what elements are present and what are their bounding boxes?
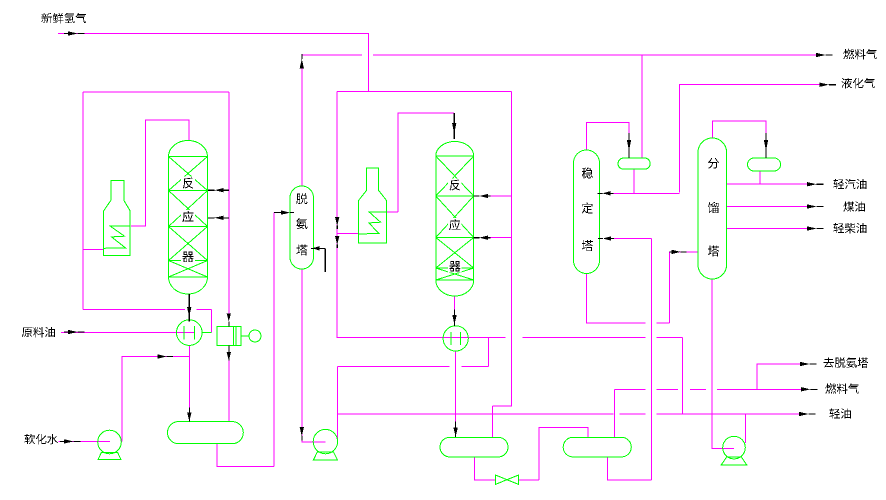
- label 软化水 softened water: [24, 434, 57, 445]
- pipe drum D2 gas riser: [613, 389, 615, 437]
- drum D0 recycle water drum: [168, 422, 244, 444]
- pipe ammonia column bottoms to pump P2: [302, 269, 326, 442]
- arrow raw oil feed: [64, 330, 85, 334]
- pipe furnace F2 outlet riser: [387, 113, 455, 212]
- arrow stabilizer feed: [598, 236, 614, 240]
- arrow H2 downcomer upper: [335, 217, 339, 229]
- label 分馏塔: [708, 158, 719, 257]
- label 脱氨塔: [296, 193, 307, 256]
- label 轻汽油 light gasoline: [833, 179, 866, 190]
- pipe pump P3 discharge: [744, 414, 746, 443]
- arrow into stab reflux drum D3: [627, 133, 631, 158]
- arrow quench R1 upper: [208, 188, 229, 192]
- pipe mixer M2 down to drum D1: [455, 351, 457, 422]
- arrow to de-ammonia tower: [800, 362, 817, 366]
- arrow exchanger bottom outlet: [227, 346, 231, 361]
- pipe exchanger bottom to drum D0: [228, 361, 230, 422]
- reactor R2 label 反应器: [448, 179, 462, 273]
- label 稳定塔: [582, 167, 593, 251]
- pipe light gasoline line: [727, 183, 807, 185]
- arrow mixer M1 outlet into drum D0: [187, 408, 191, 422]
- pipe furnace F1 inlet: [83, 248, 104, 250]
- de-ammonia column T1: [290, 186, 314, 269]
- arrow water join line: [158, 354, 174, 358]
- pipe quench stub upper R2: [491, 195, 512, 197]
- pipe product header to light oil: [338, 413, 799, 415]
- valve V1 letdown valve: [496, 475, 519, 484]
- pipe fresh hydrogen feed line: [58, 34, 369, 92]
- label 液化气 LPG: [841, 78, 874, 89]
- pipe pump P2 discharge cross line: [338, 338, 489, 367]
- label 煤油 kerosene: [843, 201, 864, 211]
- pipe recycle loop top: [83, 91, 229, 93]
- pipe valve to drum D2: [518, 428, 588, 480]
- label 燃料气 fuel gas bottom: [825, 383, 858, 394]
- label 新鲜氢气 fresh hydrogen: [41, 13, 86, 24]
- fractionator reflux drum D4: [748, 158, 781, 171]
- pump P2: [313, 429, 337, 460]
- mixer M1: [177, 320, 212, 346]
- pipe frac drum liquid down: [759, 171, 761, 184]
- pipe stab drum liquid: [613, 169, 680, 193]
- label 轻油 light oil: [829, 408, 850, 418]
- stabilizer column T2: [574, 150, 600, 274]
- arrow fuel gas bottom: [801, 387, 818, 391]
- arrow mixer M2 outlet into drum D1: [453, 422, 457, 437]
- arrow reactor R1 bottom outlet: [187, 294, 191, 322]
- pipe furnace F1 outlet to reactor R1: [131, 120, 189, 226]
- arrow light gasoline: [807, 182, 824, 186]
- label 燃料气 fuel gas top: [843, 49, 876, 60]
- pipe drum D2 bottoms to stabilizer feed riser: [608, 239, 652, 480]
- arrow quench R2 lower: [474, 236, 491, 240]
- pipe branch to de-ammonia tower: [757, 364, 800, 389]
- reactor R1: [169, 141, 208, 295]
- label 原料油 raw oil: [22, 327, 55, 337]
- pipe H2 downcomer to mixer M2: [337, 92, 468, 338]
- pipe kerosene line: [727, 206, 807, 208]
- arrow light oil: [799, 412, 816, 416]
- pipe recycle loop bottom: [83, 308, 212, 310]
- arrow quench R1 lower: [208, 216, 229, 220]
- pipe stab drum gas to fuel header: [641, 55, 643, 158]
- heat exchanger E1: [217, 327, 261, 346]
- furnace F2: [359, 168, 387, 243]
- pipe reactor R2 bottom outlet: [454, 296, 456, 310]
- arrow ammonia bottoms into pump P2: [300, 427, 304, 441]
- label 去脱氨塔 to de-ammonia tower: [824, 357, 869, 368]
- pipe recycle loop left: [82, 92, 84, 309]
- pipe fuel-gas bottom line: [614, 388, 801, 390]
- stabilizer reflux drum D3: [618, 158, 650, 169]
- pipe drum D1 bottoms to valve: [474, 457, 495, 480]
- pipe LPG line: [680, 85, 820, 193]
- pump P3: [721, 436, 746, 464]
- pipe light diesel line: [727, 228, 807, 230]
- pipe recycle-H2 header: [337, 91, 511, 93]
- pipe ammonia column overhead: [301, 69, 303, 187]
- arrow softened water: [60, 439, 81, 443]
- arrow stabilizer reflux: [598, 191, 614, 195]
- pipe fuel-gas header: [302, 54, 816, 56]
- reactor R1 label 反应器: [181, 177, 195, 264]
- pipe fractionator bottoms to pump P3: [712, 279, 734, 448]
- arrow kerosene: [807, 204, 824, 208]
- pipe mixer M2 outlet: [468, 338, 682, 414]
- pipe fractionator overhead: [712, 121, 766, 138]
- arrow quench R2 upper: [474, 194, 491, 198]
- arrow H2 downcomer lower: [335, 236, 339, 248]
- arrow reactor R2 bottom outlet: [452, 310, 456, 326]
- pipe recycle loop right leg: [228, 92, 230, 313]
- arrow into frac reflux drum D4: [764, 133, 768, 158]
- arrow fractionator feed: [670, 250, 687, 254]
- pipe pump P1 discharge: [122, 357, 190, 442]
- pipe stabilizer bottoms to fractionator: [586, 252, 698, 323]
- drum D1 cold separator: [440, 437, 508, 457]
- arrow light diesel: [807, 226, 824, 230]
- furnace F1: [104, 181, 131, 256]
- fractionator column T3: [698, 138, 727, 279]
- pipe drum D0 bottoms to ammonia column: [217, 213, 274, 467]
- arrow into reactor R2 top: [452, 113, 456, 139]
- arrow LPG: [820, 83, 837, 87]
- arrow fresh hydrogen: [64, 31, 85, 35]
- pipe raw oil feed: [61, 332, 194, 334]
- arrow fuel gas top: [816, 53, 833, 57]
- pipe stabilizer feed: [614, 238, 652, 240]
- pipe quench stub lower R2: [491, 237, 512, 239]
- mixer M2: [443, 326, 468, 351]
- arrow ammonia overhead up: [300, 54, 304, 69]
- drum D2 flash drum: [563, 437, 631, 457]
- pump P1: [98, 430, 122, 459]
- reactor R2: [436, 142, 474, 297]
- pipe mixer M1 side riser: [211, 309, 213, 332]
- pipe stabilizer overhead: [586, 123, 629, 150]
- pipe pump P2 discharge riser: [337, 367, 339, 442]
- arrow/level line ammonia column right: [311, 246, 325, 272]
- pipe mixer M1 outlet down: [188, 346, 190, 408]
- pipe furnace F2 inlet stub: [337, 233, 358, 235]
- label 轻柴油 light diesel: [833, 223, 866, 233]
- arrow into exchanger top: [227, 313, 231, 326]
- pipe softened water suction: [59, 440, 110, 442]
- pipe quench H2 riser to drum D1: [492, 92, 511, 438]
- arrow into ammonia column: [274, 210, 294, 214]
